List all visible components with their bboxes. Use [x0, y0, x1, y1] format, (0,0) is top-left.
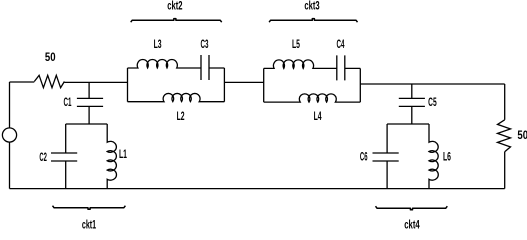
svg-text:L4: L4 — [314, 109, 322, 123]
wire load to ground — [504, 152, 506, 189]
svg-text:ckt3: ckt3 — [304, 0, 319, 13]
svg-text:C3: C3 — [201, 37, 209, 51]
brace ckt4 — [376, 206, 448, 210]
wire ckt3 to load — [360, 83, 504, 85]
capacitor C5 — [399, 98, 425, 124]
svg-text:C6: C6 — [360, 149, 368, 163]
inductor L5 — [264, 60, 337, 69]
node T-junction to C5 — [411, 84, 413, 98]
resistor R1 50 (source) — [34, 75, 64, 87]
svg-text:L3: L3 — [154, 37, 162, 51]
svg-text:L5: L5 — [292, 37, 300, 51]
ckt3 left edge — [263, 68, 265, 102]
svg-text:L6: L6 — [443, 150, 451, 164]
svg-text:L1: L1 — [119, 147, 127, 161]
resistor R2 50 (load) — [498, 120, 511, 152]
svg-text:50: 50 — [517, 128, 527, 142]
brace ckt2 — [131, 19, 222, 23]
svg-text:C1: C1 — [64, 95, 72, 109]
svg-text:L2: L2 — [177, 109, 185, 123]
inductor L4 — [264, 94, 361, 102]
source V1 — [9, 82, 11, 128]
svg-text:ckt4: ckt4 — [404, 218, 420, 230]
ckt1 box top — [66, 123, 108, 125]
wire top-left rail — [10, 81, 35, 83]
inductor L2 — [128, 93, 225, 101]
capacitor C6 — [373, 124, 399, 189]
inductor L3 — [128, 59, 202, 68]
bottom ground rail — [10, 188, 505, 190]
ckt3 right edge — [359, 68, 361, 102]
wire rail to ckt2 — [64, 81, 127, 83]
svg-text:C2: C2 — [39, 150, 47, 164]
capacitor C4 — [337, 55, 361, 80]
svg-text:50: 50 — [45, 50, 56, 64]
svg-text:ckt2: ckt2 — [167, 0, 182, 13]
ckt2 right edge — [223, 68, 225, 102]
wire right edge down — [504, 84, 506, 120]
capacitor C2 — [51, 124, 77, 189]
svg-text:C4: C4 — [337, 37, 345, 51]
ckt2 left edge — [127, 68, 129, 102]
ckt4 box top — [387, 123, 429, 125]
brace ckt1 — [53, 206, 126, 210]
inductor L6 — [429, 124, 438, 189]
svg-text:ckt1: ckt1 — [82, 218, 96, 230]
inductor L1 — [107, 124, 116, 189]
capacitor C3 — [201, 55, 224, 80]
brace ckt3 — [269, 19, 357, 23]
wire ckt2 to ckt3 — [224, 81, 263, 83]
capacitor C1 — [77, 98, 103, 124]
svg-text:C5: C5 — [428, 95, 437, 109]
node T-junction to C1 — [88, 82, 90, 98]
